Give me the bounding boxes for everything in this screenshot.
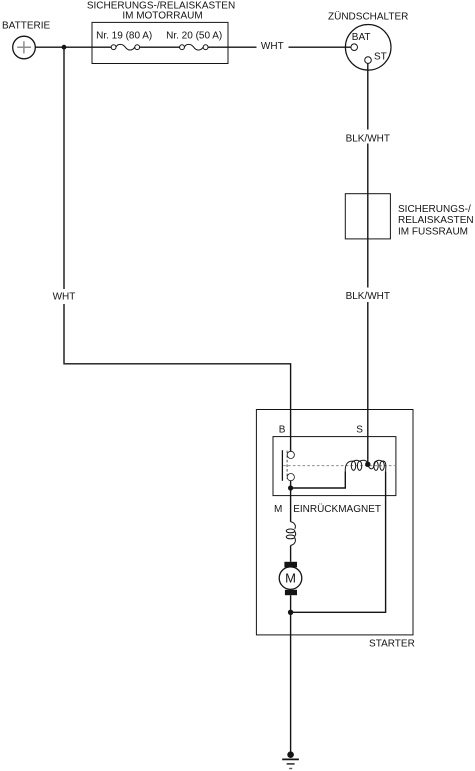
- svg-text:B: B: [279, 424, 286, 435]
- svg-text:Nr. 19 (80 A): Nr. 19 (80 A): [96, 31, 152, 42]
- svg-text:IM MOTORRAUM: IM MOTORRAUM: [122, 11, 202, 22]
- svg-text:SICHERUNGS-/: SICHERUNGS-/: [398, 204, 471, 215]
- svg-text:WHT: WHT: [261, 41, 284, 52]
- svg-text:ST: ST: [374, 52, 387, 63]
- svg-text:S: S: [356, 424, 363, 435]
- svg-text:BLK/WHT: BLK/WHT: [346, 133, 390, 144]
- svg-text:STARTER: STARTER: [369, 639, 415, 650]
- svg-text:M: M: [274, 504, 282, 515]
- svg-text:Nr. 20 (50 A): Nr. 20 (50 A): [166, 31, 222, 42]
- svg-text:BLK/WHT: BLK/WHT: [346, 291, 390, 302]
- svg-text:BAT: BAT: [352, 32, 371, 43]
- svg-text:EINRÜCKMAGNET: EINRÜCKMAGNET: [293, 503, 381, 515]
- svg-text:BATTERIE: BATTERIE: [2, 21, 50, 32]
- svg-text:IM FUSSRAUM: IM FUSSRAUM: [398, 226, 468, 237]
- svg-text:ZÜNDSCHALTER: ZÜNDSCHALTER: [328, 10, 408, 22]
- svg-text:RELAISKASTEN: RELAISKASTEN: [398, 215, 474, 226]
- svg-text:WHT: WHT: [53, 292, 76, 303]
- svg-text:M: M: [285, 571, 296, 586]
